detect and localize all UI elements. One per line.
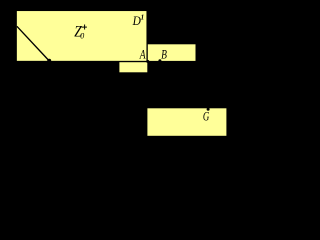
svg-text:0: 0	[80, 32, 84, 41]
small rectangle below A	[119, 62, 147, 72]
svg-text:G: G	[203, 109, 210, 124]
node dot at end of diagonal	[47, 59, 51, 63]
node dot under B	[158, 59, 161, 62]
svg-text:B: B	[161, 48, 167, 62]
node tick above G	[207, 108, 210, 111]
svg-text:A: A	[139, 48, 146, 62]
wire diagonal	[17, 26, 49, 61]
region B (box)	[147, 44, 196, 62]
region Z0+ (big rectangle)	[16, 10, 147, 61]
region G (bottom-right box)	[147, 108, 226, 136]
node junction dot	[146, 60, 149, 63]
svg-text:1: 1	[141, 13, 145, 21]
